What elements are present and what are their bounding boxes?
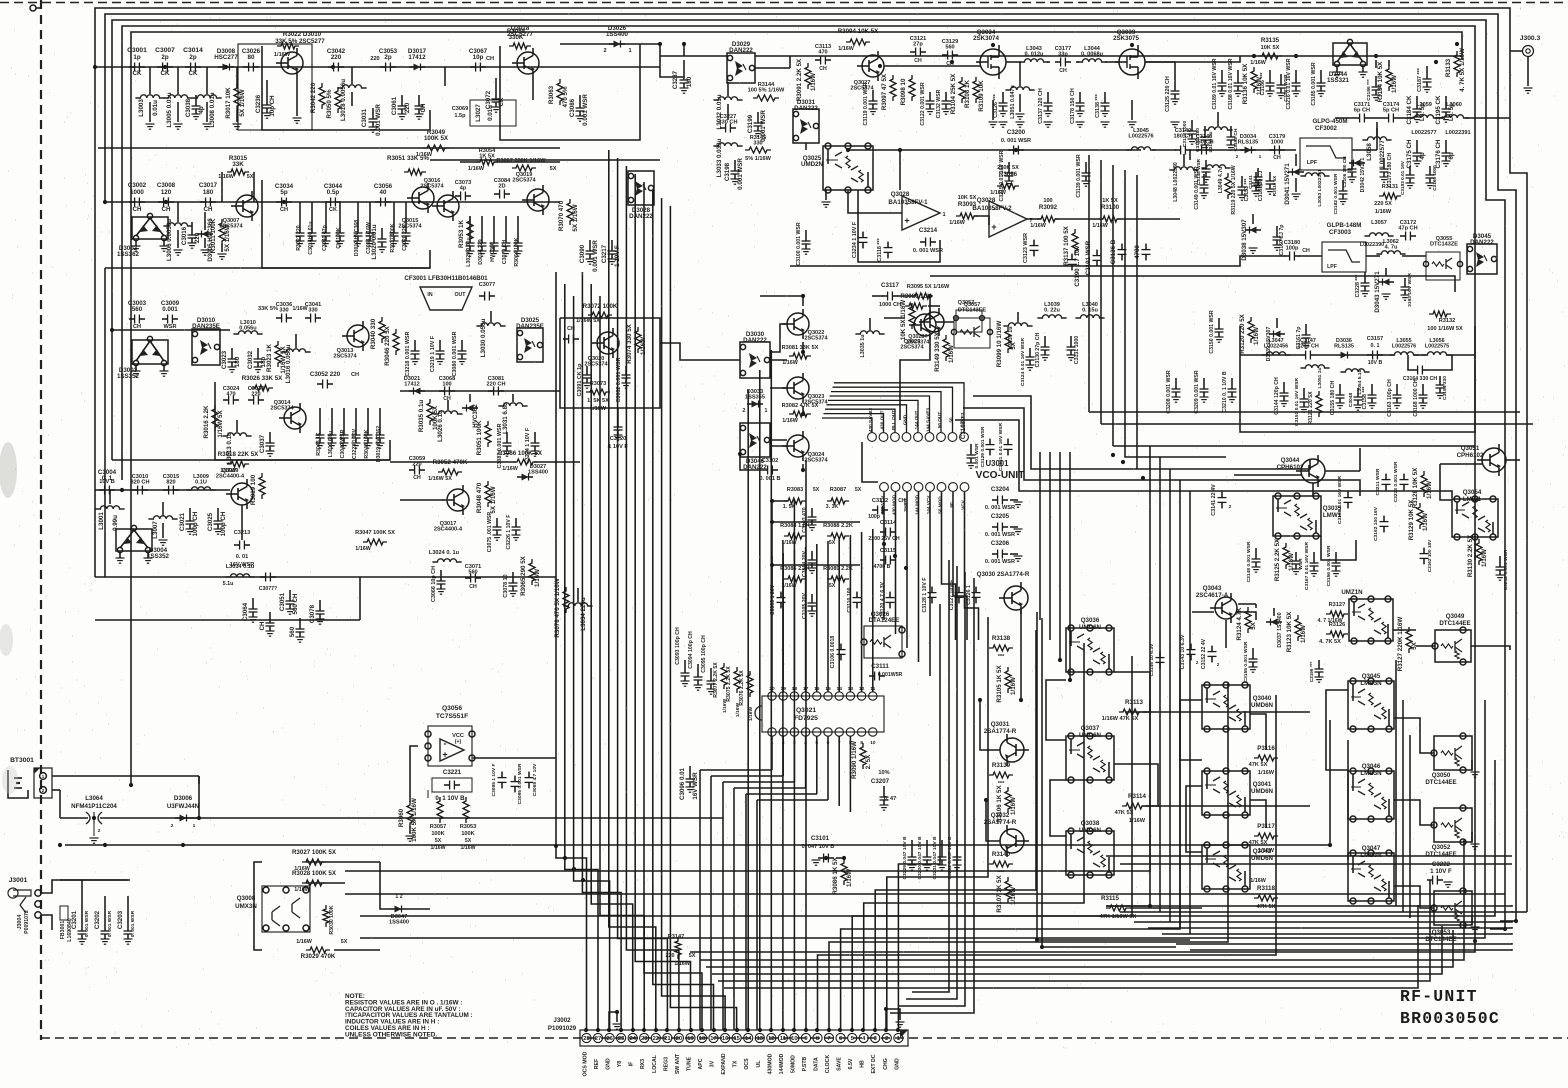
svg-text:820 CH: 820 CH bbox=[131, 480, 150, 486]
stage box Q3018 bbox=[500, 44, 640, 140]
shunt cluster chain2b bbox=[357, 202, 359, 224]
svg-text:C3102: C3102 bbox=[762, 458, 778, 464]
wire fet line bbox=[884, 65, 980, 67]
svg-text:28: 28 bbox=[583, 1036, 590, 1042]
svg-text:C3152 22 4V: C3152 22 4V bbox=[1201, 638, 1207, 669]
svg-text:180: 180 bbox=[234, 356, 241, 367]
svg-text:330: 330 bbox=[279, 308, 288, 314]
svg-text:1/16W: 1/16W bbox=[1300, 625, 1307, 643]
svg-text:100p: 100p bbox=[1286, 246, 1299, 252]
svg-text:C3016: C3016 bbox=[181, 226, 188, 245]
wire R3015 branch bbox=[221, 172, 223, 202]
svg-text:R3088 2.2K: R3088 2.2K bbox=[823, 523, 853, 529]
capacitor C3051 bbox=[289, 590, 291, 601]
transistor Q3032 bbox=[1000, 829, 1024, 853]
svg-text:R3050 5%: R3050 5% bbox=[326, 89, 333, 118]
svg-text:Q3051: Q3051 bbox=[1461, 445, 1480, 452]
svg-text:1/16W: 1/16W bbox=[220, 468, 236, 474]
transistor Q3044 bbox=[1301, 459, 1325, 483]
capacitor C3082 bbox=[625, 366, 627, 375]
svg-text:0. 001 WSR: 0. 001 WSR bbox=[985, 505, 1015, 511]
svg-text:L3031 6.8u: L3031 6.8u bbox=[502, 402, 509, 434]
filter CF3003 bbox=[1322, 242, 1366, 272]
capacitor C3148b bbox=[1255, 548, 1257, 559]
capacitor C3143 bbox=[1190, 644, 1192, 650]
svg-text:R3023 1K: R3023 1K bbox=[266, 344, 273, 372]
diode array D3031 bbox=[793, 109, 819, 143]
capacitor C3034 bbox=[276, 201, 282, 203]
svg-text:DAN222: DAN222 bbox=[629, 213, 653, 220]
ic Q3050 DTC144EE bbox=[1434, 736, 1472, 770]
capacitor C3118b bbox=[1191, 120, 1193, 131]
connector stub top-left bbox=[30, 5, 36, 11]
svg-text:C3065 4.7 10V: C3065 4.7 10V bbox=[532, 763, 538, 796]
svg-text:LOCAL: LOCAL bbox=[652, 1054, 658, 1073]
resistor R3054 bbox=[476, 159, 498, 165]
ic Q3008 UMX3N bbox=[262, 886, 310, 932]
svg-text:CH: CH bbox=[469, 584, 477, 590]
transistor Q3023 bbox=[787, 377, 809, 399]
svg-text:17: 17 bbox=[710, 1036, 716, 1042]
svg-text:GLPG-450M: GLPG-450M bbox=[1312, 118, 1347, 125]
wire bus-l3 bbox=[582, 272, 621, 1030]
svg-text:Y8: Y8 bbox=[617, 1061, 623, 1067]
capacitor C3118 bbox=[887, 242, 889, 248]
svg-text:R3029 470K: R3029 470K bbox=[301, 953, 336, 960]
capacitor C3078 bbox=[512, 572, 514, 583]
svg-text:C3014: C3014 bbox=[183, 47, 203, 54]
svg-text:C3093 100p CH: C3093 100p CH bbox=[675, 627, 681, 665]
svg-text:C3148 0.001 WSR: C3148 0.001 WSR bbox=[1246, 541, 1252, 582]
transistor Q3015 bbox=[412, 187, 434, 209]
resistor R3048b bbox=[485, 481, 491, 507]
wire lmw bbox=[1234, 474, 1301, 476]
svg-text:0. 001 WSR: 0. 001 WSR bbox=[84, 910, 90, 937]
svg-text:R3076 2.2K 5X: R3076 2.2K 5X bbox=[739, 670, 745, 706]
wire d3031 link bbox=[805, 143, 807, 150]
resistor R3131 bbox=[1379, 193, 1401, 199]
wire row424 bbox=[1101, 423, 1533, 425]
resistor R3075 bbox=[734, 667, 740, 693]
svg-text:R3017 10K: R3017 10K bbox=[225, 87, 232, 119]
svg-text:C3079 CH: C3079 CH bbox=[502, 240, 508, 264]
svg-text:100 5% 1/16W: 100 5% 1/16W bbox=[748, 88, 785, 94]
left margin smudge 3 bbox=[2, 766, 18, 794]
svg-text:CK: CK bbox=[133, 70, 142, 77]
gnd hook left bbox=[609, 1012, 617, 1028]
diode D3026 bbox=[560, 43, 660, 45]
svg-text:1SS321: 1SS321 bbox=[1327, 77, 1350, 84]
svg-text:1/16W: 1/16W bbox=[1250, 60, 1266, 66]
capacitor C3103 bbox=[811, 508, 813, 517]
svg-text:C3090: C3090 bbox=[579, 244, 586, 263]
diode D3038 bbox=[1252, 214, 1254, 224]
wire left vertical x95 bbox=[94, 67, 96, 490]
transistor Q3029 bbox=[914, 314, 936, 336]
inductor L3056 bbox=[1422, 352, 1451, 355]
svg-text:220: 220 bbox=[331, 54, 342, 61]
svg-text:R3083: R3083 bbox=[787, 487, 803, 493]
svg-text:Q3050: Q3050 bbox=[1432, 772, 1451, 779]
wire r3114 net bbox=[1146, 805, 1310, 807]
inductor L3009 bbox=[186, 487, 215, 490]
resistor R3058 bbox=[509, 43, 531, 49]
svg-text:5X 1/16W: 5X 1/16W bbox=[239, 89, 246, 116]
wire q3056 bbox=[409, 790, 411, 802]
svg-text:C3130 27p CH: C3130 27p CH bbox=[1035, 332, 1041, 367]
svg-text:L3190 1u: L3190 1u bbox=[1208, 132, 1214, 153]
svg-text:C3234 1 10V F: C3234 1 10V F bbox=[852, 221, 858, 258]
svg-text:C3214: C3214 bbox=[919, 227, 938, 234]
wire q3024 base bbox=[770, 445, 787, 447]
transistor Q3009 bbox=[231, 483, 253, 505]
svg-text:470 5%: 470 5% bbox=[562, 86, 569, 107]
svg-text:Q3052: Q3052 bbox=[1432, 844, 1451, 851]
svg-text:TUNE: TUNE bbox=[687, 1056, 693, 1071]
wire rail y894 bbox=[345, 893, 1505, 895]
capacitor C3200 bbox=[1008, 149, 1014, 151]
resistor R3027 bbox=[302, 859, 326, 865]
svg-text:5X: 5X bbox=[829, 540, 836, 546]
wire right verticals extra bbox=[1402, 700, 1404, 912]
svg-text:L3020 0.01u: L3020 0.01u bbox=[371, 224, 378, 259]
wire icdrop7 bbox=[849, 736, 851, 812]
wire q3024 out bbox=[802, 464, 804, 470]
svg-text:LMW1: LMW1 bbox=[1463, 496, 1482, 503]
svg-text:R3090 1/16W: R3090 1/16W bbox=[851, 741, 858, 779]
svg-text:CH: CH bbox=[413, 475, 421, 481]
svg-text:R3052 470K: R3052 470K bbox=[433, 459, 468, 466]
capacitor C3198b bbox=[1423, 548, 1425, 554]
connector pin 3 EXT DC bbox=[871, 1033, 880, 1042]
svg-text:D3034 229: D3034 229 bbox=[478, 239, 484, 264]
capacitor C3229 bbox=[911, 840, 913, 857]
wire fet out right bbox=[1145, 62, 1175, 80]
diode array D3046 bbox=[740, 423, 770, 457]
wire q3049 out bbox=[1471, 646, 1510, 650]
svg-text:1/16W: 1/16W bbox=[1426, 481, 1433, 499]
ic Q3036 UMD6N bbox=[1066, 628, 1114, 672]
svg-text:C3020 220: C3020 220 bbox=[402, 225, 408, 250]
diode array D3044 bbox=[1333, 43, 1367, 65]
svg-text:UMD6N: UMD6N bbox=[1079, 732, 1102, 739]
transistor Q3017 bbox=[447, 489, 469, 511]
ground fets bbox=[992, 100, 994, 120]
resistor R3093 bbox=[956, 213, 978, 219]
capacitor C3148c bbox=[1205, 160, 1207, 169]
svg-text:1K 5X: 1K 5X bbox=[1102, 198, 1118, 204]
capacitor C3162b bbox=[1383, 516, 1385, 522]
svg-text:1: 1 bbox=[193, 823, 196, 829]
inductor L3033 bbox=[713, 143, 742, 146]
svg-text:C3229 0.047 10V B: C3229 0.047 10V B bbox=[902, 836, 908, 879]
wire feed right bbox=[755, 55, 1462, 57]
wire row5 bbox=[94, 490, 96, 577]
wire ic bus4 bbox=[734, 787, 806, 789]
svg-text:L3003: L3003 bbox=[138, 99, 145, 117]
svg-text:R3125 2.2K 5X: R3125 2.2K 5X bbox=[1274, 538, 1281, 581]
ic Q3026 DTA124EE bbox=[864, 626, 902, 658]
svg-text:C3232 0.047 10V B: C3232 0.047 10V B bbox=[947, 836, 953, 879]
wire vco pins up bbox=[822, 418, 872, 432]
wire stair v3 bbox=[1112, 165, 1114, 446]
svg-text:5X: 5X bbox=[855, 487, 862, 493]
wire right edge drop 3 bbox=[1490, 928, 1505, 930]
svg-text:C3122 0.001 WSR: C3122 0.001 WSR bbox=[920, 82, 926, 126]
resistor R3040 bbox=[379, 317, 385, 343]
svg-text:C3155 180 CH: C3155 180 CH bbox=[1330, 381, 1336, 416]
wire rail y864 bbox=[1120, 863, 1512, 865]
capacitor C3072 bbox=[495, 78, 497, 88]
capacitor C3141b bbox=[1257, 168, 1259, 177]
capacitor C3215 bbox=[1008, 162, 1010, 173]
connector pin 26 GND bbox=[605, 1033, 614, 1042]
svg-text:2SC5374: 2SC5374 bbox=[804, 336, 828, 342]
svg-text:47K 5X: 47K 5X bbox=[1257, 904, 1276, 910]
svg-text:C3195 CK: C3195 CK bbox=[1435, 95, 1442, 124]
svg-text:R3094 10K 5X: R3094 10K 5X bbox=[838, 28, 879, 35]
svg-text:D3012 HVC368: D3012 HVC368 bbox=[354, 220, 360, 256]
capacitor C3077 bbox=[479, 295, 485, 297]
capacitor C3136 bbox=[1121, 244, 1123, 250]
svg-text:SAVE: SAVE bbox=[837, 1057, 843, 1071]
svg-text:NFM41P11C204: NFM41P11C204 bbox=[71, 803, 117, 810]
svg-text:1/16W: 1/16W bbox=[1422, 513, 1429, 531]
wire umd2 wiring3 bbox=[1250, 800, 1266, 828]
diode D3041 bbox=[1295, 154, 1297, 166]
svg-text:C3150 0.001 WSR: C3150 0.001 WSR bbox=[1209, 310, 1215, 354]
wire vco pins down bbox=[883, 492, 885, 620]
wire rpack0 bbox=[1106, 905, 1512, 906]
svg-text:12: 12 bbox=[768, 1036, 774, 1042]
capacitor C3131b bbox=[1070, 336, 1072, 347]
svg-text:CK: CK bbox=[498, 97, 505, 106]
svg-text:GLPB-148M: GLPB-148M bbox=[1327, 222, 1362, 229]
resistor R3053 bbox=[463, 797, 469, 823]
svg-text:10%: 10% bbox=[878, 770, 889, 776]
capacitor C3196b bbox=[1318, 660, 1320, 669]
svg-text:Q3045: Q3045 bbox=[1362, 673, 1381, 680]
resistor R3018 bbox=[227, 461, 249, 467]
svg-text:4p: 4p bbox=[1419, 152, 1426, 159]
wire q3022 out bbox=[802, 342, 804, 352]
svg-text:C3233 0.001 WSR: C3233 0.001 WSR bbox=[1393, 461, 1399, 502]
resistor R3126 bbox=[1326, 631, 1348, 637]
wire row3 bottom bbox=[112, 459, 390, 461]
svg-text:R3077 2.2K 5X: R3077 2.2K 5X bbox=[713, 662, 719, 698]
resistor R3050 bbox=[335, 87, 341, 113]
capacitor C3068 bbox=[439, 390, 445, 392]
wire pin stair 5 bbox=[852, 656, 1132, 1030]
svg-text:C3185 0.001 WSR: C3185 0.001 WSR bbox=[1311, 62, 1317, 106]
connector pin 24 IF bbox=[628, 1033, 637, 1042]
capacitor C3180 bbox=[1284, 255, 1290, 257]
svg-text:2: 2 bbox=[171, 823, 174, 829]
capacitor C3198 bbox=[734, 160, 736, 171]
svg-text:47K 5X: 47K 5X bbox=[1115, 810, 1134, 816]
svg-text:1/16W: 1/16W bbox=[1375, 209, 1392, 215]
svg-text:R3109 10K: R3109 10K bbox=[978, 80, 985, 112]
svg-text:C3186 ***: C3186 *** bbox=[1260, 72, 1266, 96]
resistor R3017 bbox=[236, 67, 238, 88]
svg-text:5X: 5X bbox=[465, 838, 472, 844]
wire bus-l0 bbox=[556, 272, 587, 1030]
capacitor C3190 bbox=[1071, 254, 1073, 260]
wire mid block bbox=[400, 390, 560, 392]
wire right edge drop 2 bbox=[1500, 920, 1516, 922]
capacitor C3141 bbox=[1221, 492, 1223, 498]
wire left block bottom bbox=[95, 619, 360, 621]
wire pin stair 1 bbox=[898, 604, 940, 1030]
capacitor C3038 bbox=[195, 95, 197, 106]
svg-text:+: + bbox=[442, 750, 447, 760]
capacitor C3129 bbox=[942, 54, 948, 56]
capacitor C3064 bbox=[252, 598, 254, 609]
svg-text:UMD6N: UMD6N bbox=[1079, 827, 1102, 834]
capacitor C3175 bbox=[1416, 140, 1418, 153]
svg-text:R3066 100K 5X: R3066 100K 5X bbox=[498, 450, 543, 457]
resistor R3125 bbox=[1283, 543, 1289, 569]
resistor R3108 bbox=[973, 77, 979, 103]
svg-text:R3043 100K: R3043 100K bbox=[364, 429, 370, 458]
svg-text:C3158 ***: C3158 *** bbox=[1362, 386, 1368, 410]
svg-text:2SK3074: 2SK3074 bbox=[973, 35, 999, 42]
svg-text:180: 180 bbox=[686, 76, 693, 87]
capacitor C3181 bbox=[1255, 172, 1257, 183]
svg-text:L3008 0.01u: L3008 0.01u bbox=[209, 92, 216, 127]
svg-text:2p: 2p bbox=[384, 54, 391, 61]
shunt L3007 bbox=[162, 502, 164, 516]
svg-text:C3106 180 CH: C3106 180 CH bbox=[1342, 156, 1347, 188]
wire q3054 out bbox=[1474, 537, 1476, 560]
svg-text:L0022576: L0022576 bbox=[1128, 134, 1153, 140]
ic Q3057b bbox=[956, 310, 982, 332]
svg-text:D3006: D3006 bbox=[174, 795, 193, 802]
capacitor C3184 bbox=[1416, 96, 1418, 109]
resistor R3104 bbox=[959, 77, 965, 103]
shunts under Q3016 bbox=[469, 216, 471, 234]
inductor L3048 bbox=[1183, 154, 1185, 166]
capacitor C3185 bbox=[1320, 70, 1322, 83]
svg-text:2p: 2p bbox=[161, 54, 168, 61]
wire rail y871 bbox=[345, 700, 1150, 871]
svg-text:5p CH: 5p CH bbox=[1383, 108, 1399, 114]
wire top bus 4 bbox=[122, 26, 1475, 480]
svg-text:C3123 WSR: C3123 WSR bbox=[1023, 233, 1029, 263]
svg-text:47K 5X: 47K 5X bbox=[1249, 762, 1268, 768]
inductor L3040 bbox=[1075, 315, 1104, 318]
svg-text:R3127 220K 1/16W: R3127 220K 1/16W bbox=[1397, 617, 1404, 672]
svg-text:5X: 5X bbox=[829, 583, 836, 589]
svg-text:4. 7 1/16W: 4. 7 1/16W bbox=[1317, 618, 1342, 624]
wire bus-l10 bbox=[644, 182, 702, 1030]
wire top bus 1 bbox=[95, 8, 1527, 912]
transistor Q3017b wire bbox=[95, 576, 400, 578]
resistor R3065 bbox=[529, 559, 535, 585]
svg-text:220 5X: 220 5X bbox=[1374, 201, 1392, 207]
capacitor C3211 bbox=[1385, 474, 1387, 480]
capacitor C3090 bbox=[589, 240, 591, 251]
capacitor C3095b bbox=[710, 668, 712, 681]
svg-text:C3106 0.0018: C3106 0.0018 bbox=[830, 636, 836, 669]
resistor R3144 bbox=[753, 95, 779, 101]
opamp box bbox=[858, 190, 940, 262]
shunt cluster chain2a bbox=[299, 202, 301, 224]
svg-text:D3042 15V271: D3042 15V271 bbox=[1360, 158, 1366, 193]
svg-text:C3231 0.047 10V B: C3231 0.047 10V B bbox=[932, 836, 938, 879]
svg-text:C3101: C3101 bbox=[811, 835, 830, 842]
svg-text:26: 26 bbox=[606, 1036, 613, 1042]
resistor R3137 bbox=[1072, 229, 1078, 255]
capacitor C3081 bbox=[488, 390, 494, 392]
wire icdrop2 bbox=[793, 736, 795, 782]
svg-text:C3194 180: C3194 180 bbox=[1195, 128, 1201, 152]
inductor L3001 bbox=[109, 490, 111, 504]
wire rv1170 bbox=[1169, 469, 1171, 922]
inductor L3062 bbox=[1376, 251, 1405, 254]
svg-text:TX: TX bbox=[733, 1060, 739, 1067]
svg-text:C3077: C3077 bbox=[479, 282, 495, 288]
svg-text:C3188 0.01 16V WSR: C3188 0.01 16V WSR bbox=[1228, 58, 1234, 109]
capacitor C3145 bbox=[1196, 149, 1202, 151]
svg-text:C3021: C3021 bbox=[179, 512, 186, 531]
wire q3043 nets bbox=[1237, 612, 1256, 620]
svg-text:CH: CH bbox=[204, 206, 213, 213]
svg-text:C3038: C3038 bbox=[185, 98, 192, 117]
svg-text:L3058: L3058 bbox=[1366, 143, 1373, 161]
svg-text:R3139: R3139 bbox=[992, 762, 1011, 769]
resistor R3066 bbox=[513, 459, 537, 465]
wire umd2 wiring1 bbox=[1180, 700, 1202, 760]
svg-text:+: + bbox=[904, 216, 909, 226]
resistor R3015 bbox=[227, 169, 249, 175]
svg-text:1SS400: 1SS400 bbox=[606, 31, 629, 38]
svg-text:Q3054: Q3054 bbox=[1463, 489, 1482, 496]
svg-text:DAN222: DAN222 bbox=[1470, 239, 1494, 246]
wire pin riser 14 bbox=[747, 390, 749, 1030]
svg-text:UMD6N: UMD6N bbox=[1251, 702, 1274, 709]
capacitor C3172 bbox=[1400, 235, 1406, 237]
svg-text:L0022577: L0022577 bbox=[1411, 130, 1436, 136]
capacitor C3053 bbox=[380, 66, 386, 68]
capacitor C3192 bbox=[1230, 126, 1232, 137]
svg-text:5X: 5X bbox=[435, 838, 442, 844]
svg-text:R3129 10K 5X: R3129 10K 5X bbox=[1408, 499, 1415, 540]
svg-text:C3132 WSR: C3132 WSR bbox=[936, 89, 942, 118]
capacitor C3220 bbox=[617, 408, 619, 418]
capacitor C3075 bbox=[496, 518, 498, 527]
connector pin 16 EXPAND bbox=[721, 1033, 730, 1042]
inductor L3039 bbox=[1037, 315, 1066, 318]
svg-text:10: 10 bbox=[791, 1036, 797, 1042]
capacitor C3176 bbox=[1445, 140, 1447, 153]
svg-text:C3125 220 CH: C3125 220 CH bbox=[1165, 76, 1171, 112]
svg-text:R3115: R3115 bbox=[1101, 895, 1119, 902]
resistor R3042 bbox=[319, 83, 325, 109]
svg-text:17412: 17412 bbox=[408, 54, 426, 61]
resistor R3080 bbox=[905, 303, 927, 309]
svg-text:C3138 ***: C3138 *** bbox=[1095, 93, 1101, 118]
svg-text:C3124 0.01 16V WSR: C3124 0.01 16V WSR bbox=[1020, 337, 1026, 386]
ic Q3041 UMD6N bbox=[1202, 771, 1250, 815]
capacitor C3126 bbox=[975, 587, 977, 593]
wire chain1 bbox=[95, 66, 660, 68]
wire rail y988 bbox=[724, 905, 1418, 988]
resistor R3016 bbox=[212, 405, 218, 431]
svg-text:R3092: R3092 bbox=[1039, 204, 1058, 211]
svg-text:C3103 470: C3103 470 bbox=[802, 507, 808, 532]
wire matrix bbox=[772, 521, 860, 523]
